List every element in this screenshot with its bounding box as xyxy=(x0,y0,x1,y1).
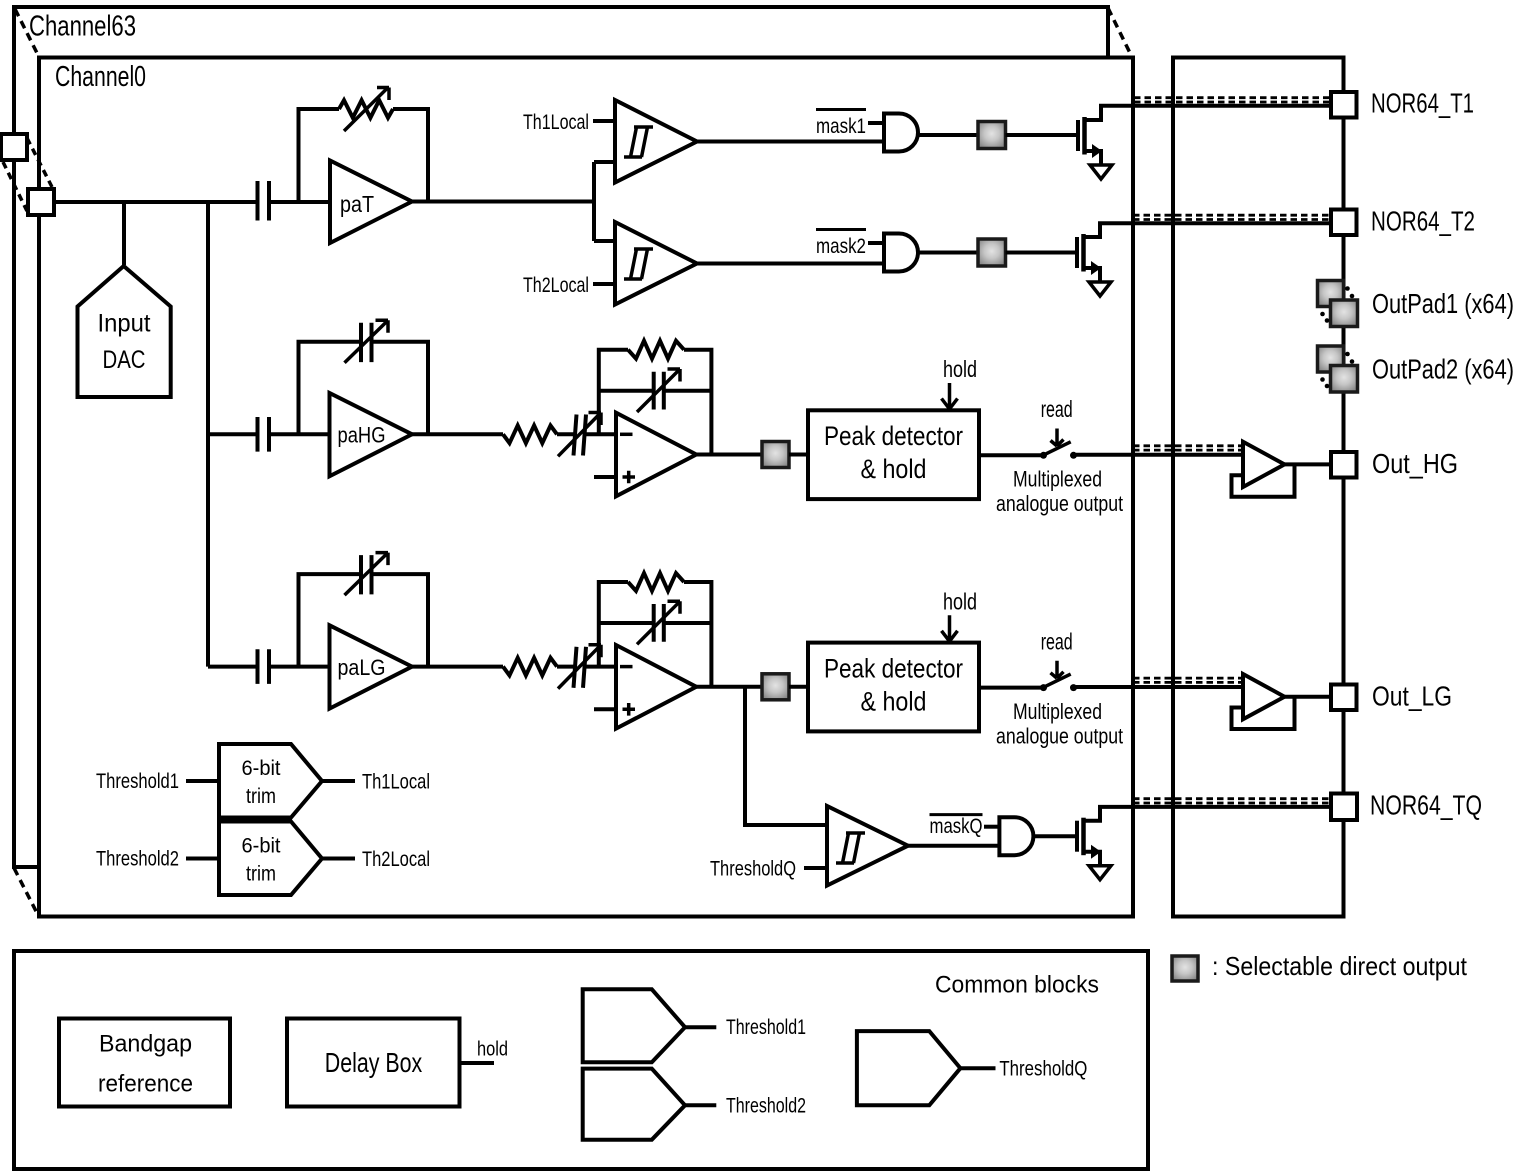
selectable output square xyxy=(762,674,789,700)
wire mask1 stub xyxy=(868,121,884,125)
peak detector box xyxy=(808,410,979,499)
variable resistor feedback paT xyxy=(299,109,340,202)
Channel0 box xyxy=(39,58,1133,917)
pad NOR64_T1 xyxy=(1331,92,1357,118)
svg-text:NOR64_T1: NOR64_T1 xyxy=(1371,87,1474,118)
selectable output square xyxy=(978,122,1006,149)
wire drain to pad xyxy=(1085,106,1332,120)
svg-text:DAC: DAC xyxy=(103,346,146,374)
svg-text:Th2Local: Th2Local xyxy=(362,848,430,871)
svg-text:Channel0: Channel0 xyxy=(55,61,146,93)
source arrow xyxy=(1092,144,1102,158)
threshold DAC block Q xyxy=(857,1031,961,1105)
svg-text:NOR64_TQ: NOR64_TQ xyxy=(1370,790,1482,821)
selectable output square xyxy=(762,442,789,468)
pad Out_HG xyxy=(1331,452,1357,478)
pad OutPad1 front square xyxy=(1331,300,1358,327)
svg-text:Th1Local: Th1Local xyxy=(523,111,589,134)
resistor feedback op-amp xyxy=(599,350,628,435)
op-amp xyxy=(616,645,696,729)
svg-text:Threshold2: Threshold2 xyxy=(96,848,179,871)
Bandgap reference block xyxy=(59,1019,230,1107)
6-bit trim block Th2Local xyxy=(219,822,322,896)
variable capacitor feedback op-amp xyxy=(599,389,712,393)
read switch xyxy=(1040,684,1047,691)
wire Delay Box hold output xyxy=(460,1061,495,1065)
read arrow xyxy=(1051,429,1064,447)
buffer feedback loop xyxy=(1232,697,1295,729)
pad NOR64_TQ xyxy=(1331,794,1357,821)
Channel63 box xyxy=(14,7,1108,867)
wire to op-amp minus xyxy=(585,665,616,669)
AND gate xyxy=(884,114,918,152)
buffer amplifier Out_HG xyxy=(1243,442,1285,487)
Input DAC xyxy=(78,266,171,397)
op-amp xyxy=(616,413,696,497)
wire AND to square xyxy=(918,133,978,137)
svg-text:Multiplexed: Multiplexed xyxy=(1013,699,1102,724)
svg-text:mask1: mask1 xyxy=(816,115,866,138)
wire Threshold2 xyxy=(685,1103,716,1107)
amplifier paHG xyxy=(330,393,413,476)
pad NOR64_T2 xyxy=(1331,210,1357,236)
wire Th1Local stub xyxy=(322,779,355,783)
wire AND to transistor xyxy=(1033,834,1077,838)
comparator Q xyxy=(827,806,908,886)
buffer amplifier Out_LG xyxy=(1243,674,1285,719)
wire comparatorQ output xyxy=(908,844,999,848)
input pad Channel63 xyxy=(1,134,27,160)
wire maskQ stub xyxy=(984,825,999,829)
svg-text:read: read xyxy=(1041,628,1073,654)
wire ThresholdQ stub xyxy=(804,866,827,870)
ground xyxy=(1089,866,1111,880)
svg-text:OutPad2 (x64): OutPad2 (x64) xyxy=(1372,354,1514,385)
svg-text:ThresholdQ: ThresholdQ xyxy=(710,858,796,881)
pad Out_LG xyxy=(1331,685,1357,711)
svg-text:ThresholdQ: ThresholdQ xyxy=(999,1058,1087,1081)
input pad Channel0 xyxy=(28,189,54,215)
buffer feedback loop xyxy=(1232,464,1295,496)
wire to comparatorQ xyxy=(745,687,827,825)
svg-text:: Selectable direct output: : Selectable direct output xyxy=(1212,951,1468,981)
wire box to switch xyxy=(979,686,1041,690)
wire Th2Local stub xyxy=(593,282,615,286)
wire AND to square xyxy=(918,251,978,255)
wire source xyxy=(1084,268,1101,282)
wire trunk branch xyxy=(208,432,258,436)
wire buffer to pad xyxy=(1285,695,1332,699)
bus dashed NOR64_TQ xyxy=(1133,799,1331,803)
capacitor coupling paHG xyxy=(258,417,270,452)
wire op-amp output xyxy=(696,453,762,457)
wire box to switch xyxy=(979,453,1041,457)
ground xyxy=(1090,165,1112,179)
svg-text:paLG: paLG xyxy=(338,655,386,680)
svg-text:analogue output: analogue output xyxy=(996,491,1123,516)
svg-text:Peak detector: Peak detector xyxy=(824,421,963,451)
svg-text:hold: hold xyxy=(943,588,977,614)
svg-text:mask2: mask2 xyxy=(816,235,866,258)
dashed corner link bottom-left Channel63 to Channel0 xyxy=(14,868,38,915)
variable capacitor input xyxy=(557,647,586,688)
read arrow xyxy=(1051,661,1064,679)
wire source xyxy=(1084,852,1101,866)
wire square to transistor xyxy=(1006,251,1079,255)
hold arrow xyxy=(942,383,958,409)
wire Threshold1 stub xyxy=(186,779,219,783)
label mask1 with overline xyxy=(816,108,866,111)
svg-text:hold: hold xyxy=(477,1039,508,1061)
ground xyxy=(1089,282,1111,296)
svg-text:read: read xyxy=(1041,396,1073,422)
pad OutPad2 stack dots xyxy=(1345,352,1350,357)
wire Th1Local stub xyxy=(593,119,615,123)
wire paT output xyxy=(412,200,594,204)
svg-text:OutPad1 (x64): OutPad1 (x64) xyxy=(1372,288,1514,319)
comparator Th2 xyxy=(615,222,697,305)
bus dashed NOR64_T2 xyxy=(1133,215,1331,219)
wire Threshold1 xyxy=(685,1025,716,1029)
wire to op-amp minus xyxy=(585,432,616,436)
svg-text:& hold: & hold xyxy=(861,454,927,484)
resistor input xyxy=(503,425,557,443)
svg-text:Threshold2: Threshold2 xyxy=(726,1095,806,1118)
svg-text:hold: hold xyxy=(943,356,977,382)
wire to Input DAC xyxy=(122,202,126,265)
dashed corner link top-right Channel63 to Channel0 xyxy=(1108,8,1130,53)
svg-text:trim: trim xyxy=(246,785,276,808)
dashed pad link upper xyxy=(27,138,52,187)
svg-text:Peak detector: Peak detector xyxy=(824,653,963,683)
bus dashed Out_LG xyxy=(1133,678,1243,682)
wire op-amp output xyxy=(696,685,762,689)
AND gate xyxy=(884,234,918,272)
pad OutPad1 back square xyxy=(1318,281,1344,307)
wire mask2 stub xyxy=(868,241,884,245)
pad OutPad1 stack dots xyxy=(1345,286,1350,291)
amplifier paLG xyxy=(330,625,413,708)
selectable output square xyxy=(978,239,1006,266)
wire input trunk down xyxy=(206,202,210,667)
transistor NMOS xyxy=(1076,120,1080,151)
variable capacitor input xyxy=(557,415,586,456)
wire comparator output xyxy=(697,140,884,144)
wire paHG to resistor xyxy=(412,432,503,436)
threshold DAC block 1 xyxy=(583,989,685,1062)
svg-text:paHG: paHG xyxy=(338,423,386,448)
variable capacitor feedback op-amp xyxy=(599,621,712,625)
svg-text:Out_LG: Out_LG xyxy=(1372,681,1452,712)
dashed corner link top-left Channel63 to Channel0 xyxy=(15,9,38,55)
svg-text:Channel63: Channel63 xyxy=(29,11,136,43)
wire drain to pad xyxy=(1084,223,1332,237)
wire Th2Local stub xyxy=(322,857,355,861)
comparator Th1 xyxy=(615,100,697,183)
wire paLG to resistor xyxy=(412,665,503,669)
resistor feedback op-amp xyxy=(599,582,628,667)
wire cap to paT xyxy=(269,200,330,204)
variable capacitor feedback paHG xyxy=(299,342,429,435)
svg-text:Common blocks: Common blocks xyxy=(935,972,1099,999)
variable capacitor feedback paLG xyxy=(299,574,429,667)
threshold DAC block 2 xyxy=(583,1069,685,1140)
svg-text:trim: trim xyxy=(246,863,276,886)
pad OutPad2 front square xyxy=(1331,366,1358,393)
bus dashed NOR64_T1 xyxy=(1134,98,1331,102)
hold arrow xyxy=(942,615,958,641)
resistor input xyxy=(503,658,557,676)
svg-text:Bandgap: Bandgap xyxy=(99,1031,192,1058)
wire multiplexed to buffer xyxy=(1076,453,1243,457)
svg-text:6-bit: 6-bit xyxy=(242,757,281,780)
wire source xyxy=(1085,151,1102,165)
dashed pad link lower xyxy=(3,162,27,211)
pad OutPad2 back square xyxy=(1318,346,1344,372)
Delay Box block xyxy=(287,1019,460,1107)
legend selectable square xyxy=(1172,956,1198,981)
svg-text:Delay Box: Delay Box xyxy=(325,1047,423,1078)
peak detector box xyxy=(808,643,979,732)
label maskQ with overline xyxy=(930,813,983,816)
transistor NMOS xyxy=(1075,821,1079,852)
svg-text:maskQ: maskQ xyxy=(930,815,983,838)
capacitor coupling paT xyxy=(258,181,270,221)
svg-text:Th1Local: Th1Local xyxy=(362,771,430,794)
source arrow xyxy=(1091,845,1101,859)
wire op-amp plus stub xyxy=(594,475,616,479)
amplifier paT xyxy=(330,161,412,244)
bus dashed Out_HG xyxy=(1133,446,1243,450)
capacitor coupling paLG xyxy=(258,649,270,684)
svg-text:Threshold1: Threshold1 xyxy=(96,770,179,793)
wire input bus xyxy=(54,200,258,204)
wire trunk branch xyxy=(208,665,258,669)
wire square to transistor xyxy=(1006,133,1079,137)
wire op-amp plus stub xyxy=(594,707,616,711)
AND gate Q xyxy=(999,817,1033,855)
svg-text:Threshold1: Threshold1 xyxy=(726,1016,806,1039)
wire multiplexed to buffer xyxy=(1076,685,1243,689)
svg-text:NOR64_T2: NOR64_T2 xyxy=(1371,205,1475,236)
output column box xyxy=(1173,58,1344,917)
wire ThresholdQ xyxy=(960,1066,995,1070)
svg-text:Multiplexed: Multiplexed xyxy=(1013,467,1102,492)
Common blocks box xyxy=(14,951,1148,1169)
transistor NMOS xyxy=(1075,237,1079,268)
svg-text:analogue output: analogue output xyxy=(996,723,1123,748)
svg-text:paT: paT xyxy=(340,191,374,217)
wire drain to pad xyxy=(1084,807,1332,821)
svg-text:& hold: & hold xyxy=(861,686,927,716)
svg-text:Th2Local: Th2Local xyxy=(523,274,589,297)
wire comparator branch xyxy=(594,162,615,241)
svg-text:Input: Input xyxy=(98,310,151,338)
wire comparator output xyxy=(697,262,884,266)
wire Threshold2 stub xyxy=(186,857,219,861)
read switch xyxy=(1040,452,1047,459)
wire buffer to pad xyxy=(1285,462,1332,466)
6-bit trim block Th1Local xyxy=(219,744,322,818)
label mask2 with overline xyxy=(816,228,866,231)
svg-text:reference: reference xyxy=(98,1071,193,1098)
svg-text:6-bit: 6-bit xyxy=(242,835,281,858)
source arrow xyxy=(1091,261,1101,275)
svg-text:Out_HG: Out_HG xyxy=(1372,448,1458,479)
